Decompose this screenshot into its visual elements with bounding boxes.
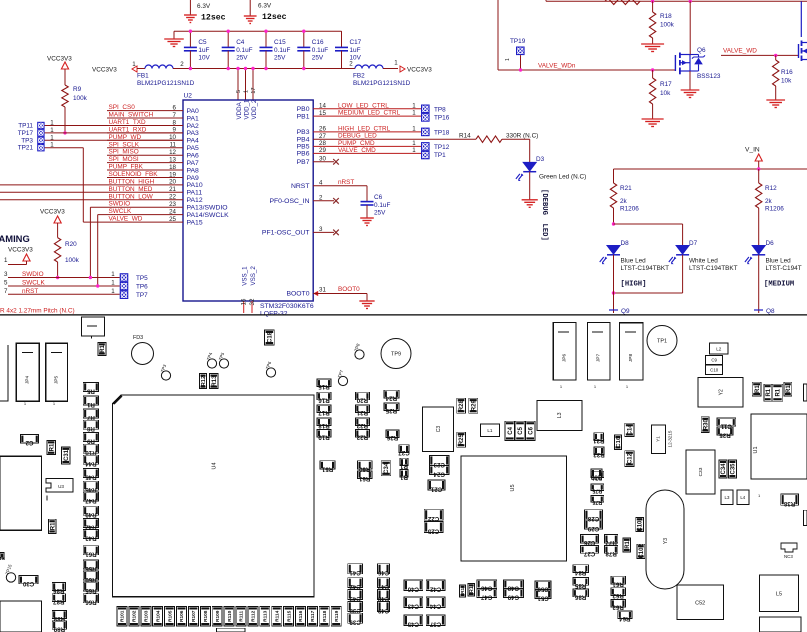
svg-text:TP8: TP8 — [434, 107, 446, 114]
svg-text:R9: R9 — [73, 86, 82, 93]
C9 cap — [706, 356, 723, 365]
R1 connector — [82, 317, 105, 336]
svg-text:FB1: FB1 — [137, 73, 149, 80]
svg-text:TP17: TP17 — [18, 130, 34, 137]
svg-text:C3: C3 — [436, 426, 442, 433]
svg-text:1: 1 — [505, 58, 511, 61]
svg-text:R43: R43 — [85, 534, 97, 541]
svg-text:R25: R25 — [385, 407, 397, 414]
svg-text:R1206: R1206 — [620, 206, 639, 213]
svg-text:R18: R18 — [660, 13, 672, 20]
svg-text:R1: R1 — [100, 344, 106, 352]
svg-text:LTST-C194T: LTST-C194T — [766, 265, 802, 272]
svg-text:7: 7 — [4, 288, 8, 295]
svg-text:1: 1 — [412, 110, 416, 117]
svg-text:VCC3V3: VCC3V3 — [92, 67, 117, 74]
svg-text:VCC3V3: VCC3V3 — [8, 247, 33, 254]
parts near Y1 — [625, 423, 634, 436]
JP6 header — [553, 323, 576, 380]
svg-text:R26: R26 — [386, 434, 398, 441]
svg-text:1: 1 — [412, 140, 416, 147]
svg-text:L4: L4 — [740, 495, 745, 500]
svg-text:R18: R18 — [318, 422, 330, 429]
svg-text:DEBUG_LED: DEBUG_LED — [338, 133, 377, 140]
svg-text:C27: C27 — [583, 550, 595, 557]
svg-text:R65: R65 — [85, 587, 97, 594]
C33 cap footprint — [686, 450, 715, 494]
column R61-64 — [611, 576, 626, 584]
svg-text:BLM21PG121SN1D: BLM21PG121SN1D — [137, 80, 195, 87]
svg-text:PA6: PA6 — [187, 153, 200, 160]
svg-text:R61: R61 — [612, 581, 624, 588]
svg-text:C43: C43 — [407, 603, 419, 610]
svg-text:R8: R8 — [86, 425, 94, 432]
svg-text:25V: 25V — [236, 55, 248, 62]
svg-text:C52: C52 — [695, 600, 705, 606]
wire TP11 to UART1_TXD — [45, 125, 183, 127]
svg-text:R29: R29 — [471, 400, 477, 412]
svg-text:0.1uF: 0.1uF — [312, 47, 328, 54]
svg-text:L5: L5 — [776, 591, 782, 597]
svg-text:SPI_CS0: SPI_CS0 — [109, 104, 136, 111]
svg-text:TP11: TP11 — [18, 123, 33, 130]
svg-text:5: 5 — [236, 90, 242, 93]
svg-text:10V: 10V — [198, 55, 210, 62]
svg-text:C34: C34 — [721, 463, 727, 475]
svg-text:C47: C47 — [480, 594, 492, 601]
resistor R20 100k — [54, 238, 60, 262]
svg-text:BUTTON_HIGH: BUTTON_HIGH — [109, 178, 155, 185]
svg-text:R119: R119 — [334, 610, 340, 622]
C10 cap — [706, 365, 723, 374]
svg-text:R1: R1 — [50, 522, 56, 530]
svg-text:1: 1 — [132, 61, 136, 68]
svg-text:12sec: 12sec — [201, 14, 226, 23]
svg-text:C14: C14 — [628, 424, 634, 436]
svg-text:BUTTON_MED: BUTTON_MED — [109, 186, 153, 193]
ground R18 — [641, 43, 664, 45]
svg-text:R44: R44 — [85, 460, 97, 467]
svg-text:C15: C15 — [274, 39, 286, 46]
svg-text:R21: R21 — [356, 409, 368, 416]
svg-text:2: 2 — [180, 61, 184, 68]
svg-text:R101: R101 — [120, 610, 126, 622]
svg-text:R61: R61 — [358, 475, 370, 482]
svg-text:C42: C42 — [429, 586, 441, 593]
J2 footprint bottom left — [0, 601, 41, 632]
testpoints TP5 TP6 TP7 — [120, 273, 129, 282]
svg-text:PB5: PB5 — [297, 144, 310, 151]
svg-text:0.1uF: 0.1uF — [274, 47, 290, 54]
svg-text:16: 16 — [241, 298, 248, 305]
cluster right of Y2 — [752, 382, 761, 396]
svg-text:R1: R1 — [399, 474, 407, 481]
capacitor C6 0.1uF 25V on NRST — [361, 201, 374, 203]
svg-text:PA10: PA10 — [187, 182, 203, 189]
svg-text:PB6: PB6 — [297, 151, 310, 158]
svg-text:U5: U5 — [510, 484, 516, 491]
svg-text:C42: C42 — [349, 583, 361, 590]
svg-text:TP21: TP21 — [18, 145, 34, 152]
svg-text:HIGH_LED_CTRL: HIGH_LED_CTRL — [338, 125, 391, 132]
resistor R16 10k — [775, 55, 777, 60]
wire V_IN rail — [614, 168, 807, 170]
svg-text:R1: R1 — [0, 556, 5, 561]
svg-text:R17: R17 — [318, 409, 330, 416]
svg-text:SWDIO: SWDIO — [109, 201, 131, 208]
svg-text:VALVE_WD: VALVE_WD — [109, 216, 143, 223]
C30 cap — [19, 576, 38, 584]
svg-text:JP8: JP8 — [628, 354, 634, 363]
edge partial parts — [803, 510, 807, 525]
Y2 crystal footprint — [698, 378, 743, 407]
svg-text:C25: C25 — [427, 527, 439, 534]
svg-text:R1: R1 — [625, 540, 631, 548]
svg-text:NC3: NC3 — [784, 554, 793, 559]
svg-text:100k: 100k — [660, 22, 675, 29]
svg-text:C16: C16 — [616, 436, 622, 447]
svg-text:R1: R1 — [86, 401, 94, 408]
svg-text:L1: L1 — [487, 428, 493, 433]
svg-text:C51: C51 — [537, 595, 549, 602]
U5 footprint — [461, 456, 567, 561]
svg-text:VDD_2: VDD_2 — [251, 99, 258, 120]
TP1 testpoint — [647, 326, 677, 356]
wire VALVE_WDn — [497, 0, 499, 70]
svg-text:R14: R14 — [459, 133, 471, 140]
svg-text:R49: R49 — [85, 511, 97, 518]
svg-text:Green Led (N.C): Green Led (N.C) — [539, 174, 586, 181]
svg-text:R20: R20 — [65, 241, 77, 248]
svg-text:C30: C30 — [22, 580, 34, 587]
svg-text:PA13/SWDIO: PA13/SWDIO — [187, 205, 228, 212]
L3 L4 small — [721, 490, 733, 504]
svg-text:R66: R66 — [85, 599, 97, 606]
bottom left column x348 — [348, 564, 363, 574]
svg-text:TP9: TP9 — [391, 351, 401, 357]
svg-text:R117: R117 — [310, 610, 316, 622]
svg-text:C2: C2 — [25, 439, 33, 446]
svg-text:VALVE_CMD: VALVE_CMD — [338, 147, 376, 154]
ground BOOT0 — [359, 300, 374, 302]
svg-text:C21: C21 — [430, 485, 442, 492]
TP9 testpoint — [381, 339, 411, 369]
svg-text:R5: R5 — [86, 387, 94, 394]
svg-text:R114: R114 — [274, 610, 280, 622]
svg-text:FD3: FD3 — [133, 335, 143, 341]
svg-text:R1: R1 — [460, 588, 466, 594]
C28 C29 — [585, 510, 603, 520]
svg-text:1: 1 — [111, 271, 115, 278]
svg-text:PA9: PA9 — [187, 175, 200, 182]
testpoints TP12 TP1 — [421, 142, 430, 151]
L5 inductor footprint — [760, 575, 799, 612]
svg-text:C6: C6 — [528, 426, 534, 434]
svg-text:R76: R76 — [592, 499, 602, 505]
svg-text:R86: R86 — [574, 593, 586, 600]
svg-text:2: 2 — [319, 194, 323, 201]
svg-text:C18: C18 — [268, 331, 274, 343]
svg-text:R112: R112 — [251, 610, 257, 622]
svg-text:R47: R47 — [85, 497, 97, 504]
svg-text:BLM21PG121SN1D: BLM21PG121SN1D — [353, 80, 411, 87]
svg-text:R12: R12 — [765, 185, 777, 192]
resistor column left of U4 — [83, 382, 99, 391]
svg-text:C45: C45 — [407, 621, 419, 628]
svg-text:C48: C48 — [377, 595, 389, 602]
JP5 header — [46, 343, 68, 401]
svg-text:C31: C31 — [64, 449, 70, 461]
svg-text:UART1_RXD: UART1_RXD — [109, 126, 147, 133]
svg-text:C49: C49 — [507, 594, 519, 601]
svg-text:R38: R38 — [783, 500, 795, 507]
svg-text:PF1-OSC_OUT: PF1-OSC_OUT — [262, 230, 310, 237]
svg-text:VSS_2: VSS_2 — [250, 266, 257, 286]
capacitor C15 0.1uF 25V — [265, 31, 267, 47]
svg-text:STM32F030K6T6: STM32F030K6T6 — [260, 303, 314, 310]
svg-text:JP4: JP4 — [25, 376, 31, 385]
wire TP21 to VALVE_WD net — [45, 147, 84, 149]
svg-text:C40: C40 — [407, 586, 419, 593]
svg-text:C35: C35 — [731, 463, 737, 475]
svg-text:L2: L2 — [716, 346, 722, 351]
wire PB5 to TP12 — [313, 145, 421, 147]
svg-text:SWCLK: SWCLK — [109, 208, 132, 215]
VSS pins 16 32 — [243, 301, 245, 313]
C53 footprint partial — [760, 617, 801, 632]
svg-text:C28: C28 — [587, 515, 599, 522]
JP4 header — [16, 343, 39, 401]
svg-text:L3: L3 — [725, 495, 730, 500]
svg-text:VDD_1: VDD_1 — [244, 99, 251, 120]
C2 cap — [20, 435, 38, 443]
svg-text:[DEBUG LED]: [DEBUG LED] — [540, 189, 548, 241]
svg-text:R104: R104 — [155, 610, 161, 622]
svg-text:SPI_SCLK: SPI_SCLK — [109, 141, 140, 148]
svg-text:R1: R1 — [399, 462, 407, 469]
Y1 crystal footprint — [651, 425, 665, 453]
C22 C25 caps — [424, 509, 443, 520]
L1 inductor — [480, 424, 499, 436]
R30 C11 R35 — [701, 417, 709, 433]
parts near U3 — [47, 440, 55, 454]
svg-text:PA7: PA7 — [187, 160, 200, 167]
U1 footprint — [751, 414, 807, 479]
svg-text:R85: R85 — [574, 582, 586, 589]
svg-text:V_IN: V_IN — [745, 147, 760, 154]
wire Q6 drain — [689, 0, 692, 3]
svg-text:Y1: Y1 — [656, 436, 661, 442]
svg-text:PA8: PA8 — [187, 167, 200, 174]
svg-text:17: 17 — [251, 87, 257, 93]
svg-text:Q9: Q9 — [621, 308, 630, 315]
svg-text:R15: R15 — [318, 383, 330, 390]
svg-text:R115: R115 — [286, 610, 292, 622]
svg-text:R118: R118 — [322, 610, 328, 622]
Y3 crystal footprint — [646, 490, 684, 589]
svg-text:R30: R30 — [703, 418, 709, 430]
svg-text:C101: C101 — [638, 517, 644, 532]
svg-text:C46: C46 — [480, 585, 492, 592]
svg-text:R1206: R1206 — [765, 206, 784, 213]
svg-text:TP18: TP18 — [434, 130, 450, 137]
svg-text:31: 31 — [319, 287, 326, 294]
TP7 testpoint — [338, 376, 347, 385]
svg-text:C38: C38 — [349, 607, 361, 614]
supercap C3 6.3V 12sec — [249, 0, 251, 16]
TP8 testpoint — [355, 350, 364, 359]
svg-text:R84: R84 — [574, 569, 586, 576]
svg-text:PA15: PA15 — [187, 219, 203, 226]
svg-text:C48: C48 — [507, 585, 519, 592]
svg-text:C43: C43 — [349, 595, 361, 602]
svg-text:1: 1 — [412, 102, 416, 109]
svg-text:NRST: NRST — [291, 183, 310, 190]
TP15 testpoint — [6, 573, 15, 582]
separator line — [0, 314, 807, 316]
resistor R18 100k — [651, 0, 654, 3]
C52 cap footprint — [677, 585, 723, 620]
svg-text:R 4x2 1.27mm Pitch (N.C): R 4x2 1.27mm Pitch (N.C) — [0, 308, 75, 315]
svg-text:1uF: 1uF — [198, 47, 209, 54]
svg-text:R1: R1 — [766, 388, 772, 396]
svg-text:PA14/SWCLK: PA14/SWCLK — [187, 212, 230, 219]
svg-text:25V: 25V — [274, 55, 286, 62]
svg-text:LTST-C194TBKT: LTST-C194TBKT — [689, 265, 738, 272]
C3 cap footprint — [422, 407, 453, 451]
svg-text:1: 1 — [111, 280, 115, 287]
svg-text:1: 1 — [111, 288, 115, 295]
svg-text:C4: C4 — [236, 39, 245, 46]
svg-text:R17: R17 — [660, 81, 672, 88]
testpoint TP18 — [421, 128, 430, 137]
svg-text:VCC3V3: VCC3V3 — [47, 56, 72, 63]
wire PB3 to TP18 — [313, 131, 421, 133]
svg-text:Blue Led: Blue Led — [766, 258, 792, 265]
no-connect stub PB7 — [313, 161, 334, 163]
svg-text:2k: 2k — [765, 198, 773, 205]
ground R16 — [766, 99, 785, 101]
svg-text:R75: R75 — [592, 487, 602, 493]
svg-text:TP1: TP1 — [657, 338, 667, 344]
svg-text:R35: R35 — [719, 432, 731, 439]
transistor Q9 — [613, 293, 615, 313]
wire PB6 to TP1 — [313, 152, 421, 154]
svg-text:C17: C17 — [350, 39, 362, 46]
svg-text:SPI_MISO: SPI_MISO — [109, 149, 139, 156]
svg-text:R51: R51 — [321, 465, 333, 472]
resistor R17 10k — [651, 68, 654, 71]
supercap C2 6.3V 12sec — [189, 0, 191, 15]
TP5 testpoint — [219, 359, 228, 368]
testpoints TP8 TP16 — [421, 105, 430, 114]
wire PB1 to TP16 — [313, 115, 421, 117]
svg-text:C16: C16 — [312, 39, 324, 46]
capacitor C16 0.1uF 25V — [303, 31, 305, 47]
svg-text:VCC3V3: VCC3V3 — [40, 209, 65, 216]
svg-text:SWDIO: SWDIO — [22, 271, 44, 278]
svg-text:C37: C37 — [429, 621, 441, 628]
svg-text:U3: U3 — [58, 484, 64, 489]
JP7 header — [588, 323, 610, 380]
svg-text:C12: C12 — [628, 452, 634, 464]
svg-text:10k: 10k — [781, 78, 792, 85]
svg-text:R16: R16 — [781, 69, 793, 76]
wire Q6 source to ground — [689, 71, 691, 90]
svg-text:C4: C4 — [508, 426, 514, 434]
capacitor C5 1uF 10V — [189, 31, 191, 47]
wire PB0 to TP8 — [313, 108, 421, 110]
svg-text:R105: R105 — [167, 610, 173, 622]
resistor R9 100k — [62, 85, 68, 107]
svg-text:C5: C5 — [518, 426, 524, 434]
svg-text:TP19: TP19 — [510, 38, 526, 45]
svg-text:R113: R113 — [263, 610, 269, 622]
svg-text:TP1: TP1 — [434, 152, 446, 159]
svg-text:R31: R31 — [593, 437, 605, 444]
svg-text:C49: C49 — [377, 607, 389, 614]
svg-text:BOOT0: BOOT0 — [286, 291, 309, 298]
svg-text:R77: R77 — [605, 539, 617, 546]
C26 C27 — [581, 535, 599, 543]
svg-text:C10: C10 — [710, 367, 719, 372]
svg-text:PB4: PB4 — [297, 137, 310, 144]
svg-text:25V: 25V — [312, 55, 324, 62]
bottom pairs x404 x426 — [404, 580, 423, 591]
wire TP3 to PUMP_WD — [45, 139, 183, 141]
svg-text:330R (N.C): 330R (N.C) — [506, 133, 538, 140]
svg-text:R110: R110 — [227, 610, 233, 622]
JP8 header — [620, 323, 644, 380]
svg-text:R63: R63 — [612, 604, 624, 611]
svg-text:VDDA: VDDA — [236, 101, 243, 119]
svg-text:32: 32 — [249, 298, 256, 305]
wire top rail — [545, 0, 547, 1]
svg-text:PA4: PA4 — [187, 138, 200, 145]
svg-text:R20: R20 — [356, 396, 368, 403]
svg-text:[HIGH]: [HIGH] — [621, 281, 647, 289]
svg-text:C9: C9 — [711, 358, 717, 363]
svg-text:Y3: Y3 — [663, 538, 669, 544]
svg-text:R9: R9 — [86, 437, 94, 444]
svg-text:C34: C34 — [384, 462, 390, 474]
svg-text:TP16: TP16 — [434, 115, 450, 122]
svg-text:TP7: TP7 — [136, 292, 148, 299]
svg-text:PA0: PA0 — [187, 108, 200, 115]
svg-text:C5: C5 — [198, 39, 207, 46]
svg-text:C6: C6 — [374, 194, 383, 201]
TP4 testpoint — [207, 359, 216, 368]
bottom pin row under U4 — [117, 607, 127, 627]
svg-text:BUTTON_LOW: BUTTON_LOW — [109, 193, 154, 200]
svg-text:R102: R102 — [132, 610, 138, 622]
svg-text:C102: C102 — [639, 544, 645, 559]
svg-text:LTST-C194TBKT: LTST-C194TBKT — [621, 265, 670, 272]
svg-text:R28: R28 — [459, 400, 465, 412]
svg-text:R1: R1 — [755, 385, 761, 393]
svg-text:1: 1 — [412, 125, 416, 132]
U3 footprint — [46, 479, 73, 493]
svg-text:100k: 100k — [65, 257, 80, 264]
svg-text:5: 5 — [4, 280, 8, 287]
svg-text:FB2: FB2 — [353, 73, 365, 80]
svg-text:C47: C47 — [377, 583, 389, 590]
svg-text:R108: R108 — [203, 610, 209, 622]
svg-text:TP12: TP12 — [434, 144, 450, 151]
bottom mid cluster — [468, 583, 475, 596]
svg-text:PA2: PA2 — [187, 123, 200, 130]
L3 inductor footprint — [537, 400, 582, 430]
